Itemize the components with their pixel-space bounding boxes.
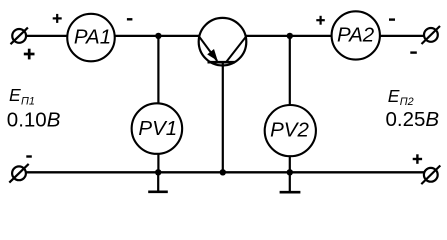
svg-text:PA1: PA1 [74,25,111,48]
svg-text:0.10В: 0.10В [7,109,61,132]
svg-text:PV1: PV1 [138,117,177,140]
svg-text:PA2: PA2 [337,23,375,46]
wire: PV2 branch (node B down to bottom rail) [289,36,291,172]
plus sign (below terminal X1) [24,49,35,60]
terminal X1 (top left input) [11,28,28,45]
plus sign (left of PA1, above wire) [53,14,62,23]
emitter line (left diagonal) [199,36,218,61]
collector line (right diagonal) [226,36,246,62]
minus sign (above terminal X3) [26,155,32,157]
svg-text:0.25В: 0.25В [386,108,440,131]
svg-text:П1: П1 [21,95,35,107]
minus sign (right of PA1) [127,18,132,20]
node B (junction dot, top of PV2 branch) [287,33,293,39]
node A (junction dot, top of PV1 branch) [155,33,161,39]
svg-text:П2: П2 [400,96,414,108]
junction dot (PV1 / ground, bottom rail) [155,169,161,175]
terminal X4 (bottom right) [421,166,440,185]
svg-text:E: E [388,86,400,106]
ground (below PV1 junction) [148,172,168,192]
emitter arrow (points to base: PNP) [207,49,218,61]
minus sign (right of PA2) [389,18,395,20]
wire: bottom rail (X3 to X4) [19,171,431,173]
transistor VT1 (PNP) [199,18,247,66]
label E_П2 (supply 2 EMF) [388,86,414,108]
plus sign (above terminal X4) [413,154,422,164]
svg-text:PV2: PV2 [270,119,309,142]
ground (below PV2 junction) [280,172,301,192]
junction dot (PV2 / ground, bottom rail) [287,169,293,175]
base bar [208,61,236,64]
wire: transistor base down to bottom rail [222,62,224,173]
wire: PV1 branch (node A down to bottom rail) [157,36,159,172]
voltmeter PV1 [132,103,183,154]
voltmeter PV2 [265,105,316,156]
minus sign (below terminal X2) [410,51,417,53]
terminal X3 (bottom left) [9,164,28,183]
svg-text:E: E [9,85,21,105]
label E_П1 (supply 1 EMF) [9,85,35,107]
plus sign (left of PA2) [316,16,325,25]
ammeter PA1 [67,14,115,62]
terminal X2 (top right output) [422,26,441,44]
ammeter PA2 [332,11,380,59]
junction dot (transistor base, bottom rail) [220,169,226,175]
wire: top rail (X1 to X2) [19,35,431,37]
